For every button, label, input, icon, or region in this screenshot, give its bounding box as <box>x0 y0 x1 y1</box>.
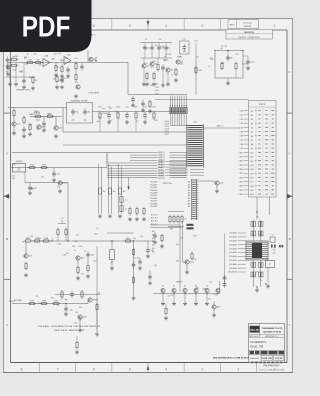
transistor Q14 <box>58 181 62 185</box>
wire <box>121 167 123 214</box>
svg-text:APPROVED R.J.: APPROVED R.J. <box>266 335 279 338</box>
svg-text:47p: 47p <box>12 176 15 178</box>
ground <box>25 273 27 275</box>
transistor Q13 <box>185 260 189 264</box>
ground <box>165 316 167 318</box>
resistor R52 <box>81 290 83 292</box>
svg-text:2: 2 <box>237 367 239 371</box>
svg-text:A7: A7 <box>188 200 190 203</box>
svg-text:10n: 10n <box>72 120 75 122</box>
svg-text:PDF: PDF <box>22 12 71 44</box>
svg-text:+12: +12 <box>60 218 63 220</box>
resistor R37 <box>28 303 30 305</box>
ground <box>129 217 131 219</box>
svg-text:A5: A5 <box>251 131 253 134</box>
svg-text:CN17: CN17 <box>239 181 243 183</box>
PDF badge <box>0 0 92 52</box>
svg-text:BT1 4k7: BT1 4k7 <box>151 218 158 220</box>
ground <box>96 332 98 334</box>
svg-text:R45: R45 <box>72 246 75 248</box>
transistor Q1 <box>89 57 93 61</box>
ground <box>213 313 215 315</box>
svg-text:4k7: 4k7 <box>97 121 100 123</box>
wire <box>63 131 186 133</box>
resistor R39 <box>52 303 54 305</box>
svg-text:7: 7 <box>57 367 59 371</box>
svg-text:A16: A16 <box>250 177 253 180</box>
svg-text:CN12: CN12 <box>239 161 243 163</box>
svg-text:CN1-A7A: CN1-A7A <box>229 259 237 262</box>
ground <box>153 82 155 84</box>
svg-text:74s: 74s <box>75 112 78 114</box>
svg-text:D5: D5 <box>206 285 208 287</box>
transistor Q6 <box>176 60 180 64</box>
resistor R21 <box>99 111 101 113</box>
wire <box>179 265 181 292</box>
svg-text:R45: R45 <box>193 235 196 237</box>
svg-text:CN1-B57: CN1-B57 <box>150 195 157 197</box>
resistor R26 <box>24 240 26 242</box>
capacitor C27 <box>224 281 226 284</box>
capacitor C23 <box>29 185 31 188</box>
svg-text:CN16: CN16 <box>239 177 243 179</box>
svg-text:A1: A1 <box>188 183 190 186</box>
svg-text:1n: 1n <box>125 209 127 211</box>
svg-text:10n: 10n <box>53 79 56 81</box>
svg-text:330: 330 <box>170 229 173 231</box>
svg-text:R22: R22 <box>116 107 119 109</box>
capacitor C18 <box>108 188 111 194</box>
svg-text:10n: 10n <box>76 234 79 236</box>
svg-text:10k: 10k <box>51 298 54 300</box>
component X2 <box>279 245 281 247</box>
resistor R19 <box>46 116 48 118</box>
ground <box>99 214 101 216</box>
wire <box>195 44 197 95</box>
svg-text:A19: A19 <box>250 189 253 192</box>
svg-text:10k: 10k <box>65 57 68 59</box>
svg-text:1n: 1n <box>164 56 166 58</box>
svg-text:A12: A12 <box>250 160 253 163</box>
capacitor C36 <box>139 259 141 262</box>
svg-text:CN1-A0A: CN1-A0A <box>229 232 237 235</box>
svg-text:A0: A0 <box>251 110 253 113</box>
transistor Q16 <box>76 256 80 260</box>
wire <box>30 116 62 118</box>
diode D3 <box>183 288 187 292</box>
svg-text:B6x: B6x <box>152 251 155 253</box>
capacitor C32 <box>120 206 123 212</box>
svg-text:A17: A17 <box>250 181 253 184</box>
svg-text:PLUS: PLUS <box>250 328 258 332</box>
svg-text:CN13: CN13 <box>239 165 243 167</box>
ground <box>126 120 128 122</box>
ground <box>146 82 148 84</box>
resistor R48 <box>133 276 135 278</box>
capacitor C5 <box>132 96 134 99</box>
ground <box>143 217 145 219</box>
resistor R6 <box>75 62 77 64</box>
svg-text:CN1-B47: CN1-B47 <box>150 193 157 195</box>
svg-text:PROPRIETARY: PROPRIETARY <box>263 365 280 368</box>
svg-text:C33: C33 <box>57 53 60 55</box>
svg-text:4k7: 4k7 <box>180 63 183 65</box>
svg-text:22k: 22k <box>25 64 28 66</box>
ground <box>267 284 269 286</box>
resistor R17 <box>13 109 15 111</box>
wire <box>141 57 172 59</box>
svg-text:10n: 10n <box>155 45 158 47</box>
svg-text:CN1-B17: CN1-B17 <box>150 184 157 186</box>
resistor R3 <box>26 62 28 64</box>
resistor R9 <box>75 73 77 75</box>
svg-text:22k: 22k <box>36 296 39 298</box>
svg-text:CN1-A8A: CN1-A8A <box>229 263 237 266</box>
capacitor C33 <box>23 127 25 130</box>
svg-text:1n: 1n <box>61 183 63 185</box>
svg-text:R45: R45 <box>47 114 50 116</box>
svg-text:A9: A9 <box>188 205 190 208</box>
svg-text:100k: 100k <box>67 54 71 56</box>
svg-text:R21: R21 <box>98 107 101 109</box>
svg-text:A7: A7 <box>251 139 253 142</box>
resistor R54 <box>221 62 223 64</box>
svg-text:A1: A1 <box>251 114 253 117</box>
ground <box>173 294 175 302</box>
ground <box>59 189 61 191</box>
svg-text:10n: 10n <box>123 191 126 193</box>
svg-text:6: 6 <box>93 24 95 28</box>
transistor Q11 <box>54 126 58 130</box>
diode D6 <box>216 288 220 292</box>
svg-text:22k: 22k <box>39 65 42 67</box>
resistor R56 <box>61 65 63 67</box>
svg-text:A15: A15 <box>250 172 253 175</box>
ground <box>67 74 69 76</box>
svg-text:CN1-B27: CN1-B27 <box>150 187 157 189</box>
svg-text:A5: A5 <box>188 194 190 197</box>
svg-text:4k7: 4k7 <box>24 58 27 60</box>
ground <box>139 266 141 268</box>
op-amp U2 <box>64 57 71 65</box>
svg-text:C33: C33 <box>30 236 33 238</box>
ground <box>206 294 208 302</box>
transistor Q12 <box>215 181 219 185</box>
svg-text:CN1-A3A: CN1-A3A <box>229 243 237 246</box>
capacitor C8 <box>158 45 160 48</box>
svg-text:8: 8 <box>21 367 23 371</box>
svg-text:10k: 10k <box>75 312 78 314</box>
resistor R1 <box>10 59 12 61</box>
capacitor C12 <box>227 55 229 58</box>
transistor Q2 <box>76 85 80 89</box>
resistor R42 <box>161 234 163 236</box>
svg-text:22k: 22k <box>74 241 77 243</box>
svg-text:RE-ENT / CN RECORD: RE-ENT / CN RECORD <box>238 37 260 39</box>
ground <box>136 217 138 219</box>
capacitor C28 <box>271 245 273 248</box>
svg-text:22k: 22k <box>66 253 69 255</box>
svg-text:100k: 100k <box>195 287 199 289</box>
resistor R7 <box>32 76 34 78</box>
svg-text:C16: C16 <box>143 107 146 109</box>
svg-text:3: 3 <box>201 24 203 28</box>
transistor Q20 <box>37 125 41 129</box>
wire <box>5 76 35 78</box>
resistor R50 <box>136 207 138 209</box>
svg-text:22k: 22k <box>41 177 44 179</box>
svg-text:1k: 1k <box>22 242 24 244</box>
resistor R11 <box>146 72 148 74</box>
ground <box>55 73 57 75</box>
svg-text:5: 5 <box>129 367 131 371</box>
wire <box>25 182 68 184</box>
svg-text:R23: R23 <box>134 107 137 109</box>
svg-text:A14: A14 <box>250 168 253 171</box>
svg-text:CN6: CN6 <box>240 136 243 138</box>
transistor Q17 <box>88 298 92 302</box>
transistor Q5 <box>166 68 170 72</box>
capacitor C13 <box>247 59 249 62</box>
svg-text:A3: A3 <box>188 189 190 192</box>
svg-text:1n: 1n <box>65 299 67 301</box>
capacitor C1 <box>7 65 9 68</box>
ground <box>119 214 121 216</box>
svg-text:BAV99: BAV99 <box>31 187 37 190</box>
svg-text:CN1-B97: CN1-B97 <box>150 206 157 208</box>
wire <box>99 120 101 132</box>
svg-text:CN19: CN19 <box>239 190 243 192</box>
wire <box>215 50 243 52</box>
diode D4 <box>194 288 198 292</box>
svg-text:C33: C33 <box>57 243 60 245</box>
node TP1 <box>95 60 97 62</box>
ground <box>143 82 145 84</box>
ground <box>195 294 197 302</box>
capacitor C37 <box>71 291 73 294</box>
svg-text:CN1-B77: CN1-B77 <box>150 201 157 203</box>
wire <box>204 127 241 129</box>
svg-text:CN1-B87: CN1-B87 <box>150 203 157 205</box>
ground <box>162 83 164 85</box>
svg-text:1k: 1k <box>171 75 173 77</box>
svg-text:4k7: 4k7 <box>81 273 84 275</box>
svg-text:10n: 10n <box>84 120 87 122</box>
wire <box>269 197 271 215</box>
wire <box>133 241 135 296</box>
wire <box>127 63 129 95</box>
svg-text:47p: 47p <box>167 48 170 50</box>
svg-text:1n: 1n <box>52 239 54 241</box>
svg-text:A2: A2 <box>188 186 190 189</box>
svg-text:R45: R45 <box>19 71 22 73</box>
resistor R55 <box>235 62 237 64</box>
svg-text:B: B <box>6 237 8 241</box>
resistor R36 <box>87 264 89 266</box>
wire <box>107 232 134 234</box>
svg-text:BC847: BC847 <box>103 113 109 115</box>
svg-text:Tel. No. 12 MB 013 BF 2008: Tel. No. 12 MB 013 BF 2008 <box>259 370 285 372</box>
svg-text:100n: 100n <box>37 238 41 240</box>
svg-text:CN 15-23L: CN 15-23L <box>243 23 252 25</box>
svg-text:A2: A2 <box>251 118 253 121</box>
svg-text:DNC +5: DNC +5 <box>217 126 223 128</box>
svg-text:1k: 1k <box>98 117 100 119</box>
resistor R23 <box>135 111 137 113</box>
resistor R12 <box>153 72 155 74</box>
svg-text:REVISION: REVISION <box>244 32 254 34</box>
wire <box>55 294 100 296</box>
ground <box>75 94 77 96</box>
svg-text:10n: 10n <box>116 112 119 114</box>
wire <box>179 222 181 265</box>
wire <box>118 164 120 214</box>
svg-text:CN1-A2A: CN1-A2A <box>229 240 237 243</box>
regulator U3 <box>13 164 26 173</box>
ground <box>111 266 113 268</box>
wire <box>224 233 226 285</box>
ground <box>108 120 110 122</box>
svg-text:F29 /29: F29 /29 <box>275 358 283 360</box>
svg-text:SCHEMATIC,: SCHEMATIC, <box>250 340 267 344</box>
wire <box>144 52 146 58</box>
IC U9 <box>246 241 268 260</box>
svg-text:100n: 100n <box>60 60 64 62</box>
svg-text:A6: A6 <box>188 197 190 200</box>
transistor Q10 <box>12 122 16 126</box>
svg-text:22k: 22k <box>36 129 39 131</box>
wire <box>267 268 269 284</box>
svg-text:A10: A10 <box>250 152 253 155</box>
resistor R43 <box>76 341 78 343</box>
ground <box>23 85 25 87</box>
signature cell <box>250 357 259 359</box>
connector J2 <box>191 179 193 220</box>
resistor R32 <box>25 262 27 264</box>
capacitor C15 <box>126 112 128 115</box>
resistor R14 <box>195 66 197 68</box>
ground <box>216 189 218 191</box>
wire <box>108 164 110 214</box>
svg-text:CN1: CN1 <box>240 115 243 117</box>
svg-text:100n: 100n <box>94 234 98 236</box>
ground <box>29 191 31 193</box>
wire <box>101 167 103 214</box>
svg-text:R24: R24 <box>152 107 155 109</box>
capacitor C30 <box>7 57 9 60</box>
svg-text:A9: A9 <box>251 147 253 150</box>
svg-text:4n7: 4n7 <box>145 63 148 65</box>
ground <box>43 128 45 130</box>
capacitor C7 <box>151 45 153 48</box>
svg-text:CN8: CN8 <box>240 144 243 146</box>
svg-text:1n: 1n <box>125 200 127 202</box>
bus wires <box>98 163 100 169</box>
scale row <box>251 362 254 364</box>
transistor Q3 <box>142 64 146 68</box>
svg-text:2k2: 2k2 <box>93 260 96 262</box>
wire <box>150 224 180 226</box>
ground <box>161 244 163 246</box>
wire <box>62 108 64 133</box>
svg-text:2RD-2087WDCM Rev 10 MB 30.06 0: 2RD-2087WDCM Rev 10 MB 30.06 08 <box>213 357 250 359</box>
svg-text:4k7: 4k7 <box>220 48 223 50</box>
wire <box>63 144 187 146</box>
capacitor C10 <box>162 65 164 68</box>
svg-text:BC847: BC847 <box>242 64 248 66</box>
svg-text:C33: C33 <box>160 46 163 48</box>
resistor R8 <box>56 75 58 77</box>
svg-text:CN11: CN11 <box>239 156 243 158</box>
diode D2 <box>172 288 176 292</box>
svg-text:4: 4 <box>165 24 167 28</box>
capacitor C20 <box>147 247 149 250</box>
svg-text:CN1-B37: CN1-B37 <box>150 190 157 192</box>
ground <box>167 82 169 84</box>
diode D5 <box>205 288 209 292</box>
svg-text:22k: 22k <box>140 236 143 238</box>
ground <box>144 120 146 122</box>
svg-text:1k: 1k <box>27 54 29 56</box>
capacitor C34 <box>142 101 144 104</box>
svg-text:TP21: TP21 <box>155 93 159 95</box>
ground <box>247 66 249 68</box>
capacitor C9 <box>165 45 167 48</box>
svg-text:1k: 1k <box>171 295 173 297</box>
wire <box>96 246 98 330</box>
svg-text:D3: D3 <box>184 285 186 287</box>
wire <box>154 293 220 295</box>
capacitor C19 <box>118 188 121 194</box>
transistor Q15 <box>24 254 28 258</box>
svg-text:4n7: 4n7 <box>109 120 112 122</box>
svg-text:4n7: 4n7 <box>151 67 154 69</box>
svg-text:330: 330 <box>13 69 16 71</box>
resistor R47 <box>133 248 135 250</box>
svg-text:MOV: MOV <box>230 25 235 27</box>
resistor R51 <box>143 207 145 209</box>
size fscm dwg header <box>250 351 255 354</box>
svg-text:P3/C8: P3/C8 <box>259 104 266 106</box>
capacitor C11 <box>43 121 45 124</box>
svg-text:330: 330 <box>15 56 18 58</box>
svg-text:6: 6 <box>93 367 95 371</box>
wire <box>256 197 258 220</box>
svg-text:W FILTERS: W FILTERS <box>89 93 100 95</box>
svg-text:10n: 10n <box>193 259 196 261</box>
svg-text:PLNE JTB: PLNE JTB <box>250 345 263 349</box>
svg-text:100k: 100k <box>220 63 224 65</box>
capacitor C38 <box>67 67 69 70</box>
resistor R34 <box>65 228 67 230</box>
svg-text:CN5: CN5 <box>240 131 243 133</box>
svg-text:4: 4 <box>165 367 167 371</box>
svg-text:TP01: TP01 <box>155 87 159 89</box>
svg-text:A3: A3 <box>251 122 253 125</box>
svg-text:UNREG: UNREG <box>16 161 23 163</box>
svg-text:THE BRAND CO LTD: THE BRAND CO LTD <box>262 327 283 330</box>
svg-text:B0x: B0x <box>152 231 155 233</box>
ground <box>186 270 188 272</box>
svg-text:2k2: 2k2 <box>176 260 179 262</box>
ground <box>61 74 63 76</box>
svg-text:CN7: CN7 <box>240 140 243 142</box>
wire <box>184 218 187 220</box>
svg-text:A0: A0 <box>188 181 190 184</box>
capacitor C12 <box>72 109 74 112</box>
resistor R41 <box>96 303 98 305</box>
svg-text:C33: C33 <box>96 293 99 295</box>
